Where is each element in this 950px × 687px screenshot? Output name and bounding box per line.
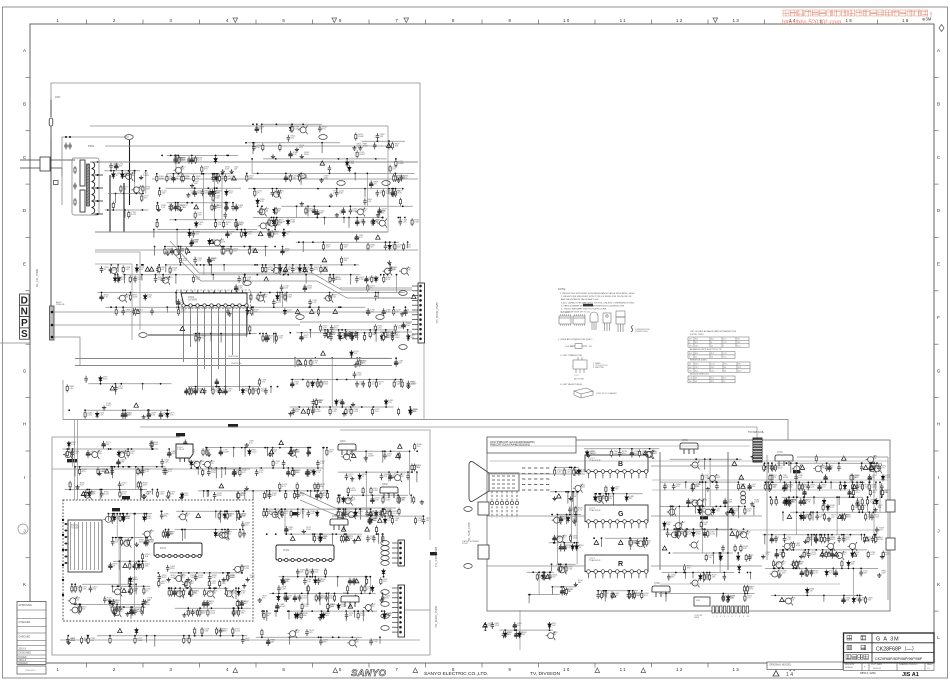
wire <box>107 514 109 521</box>
resistor <box>241 564 243 572</box>
capacitor <box>382 308 386 316</box>
ruler tick bottom <box>142 663 144 668</box>
svg-text:IC101: IC101 <box>160 548 167 550</box>
wire <box>252 491 254 500</box>
resistor <box>289 174 291 182</box>
junction <box>317 379 319 381</box>
capacitor <box>111 468 115 475</box>
svg-text:TO_MAIN_PWB: TO_MAIN_PWB <box>434 606 438 628</box>
resistor <box>394 174 396 182</box>
resistor <box>191 589 193 597</box>
svg-text:DRAWING PWB NO.: DRAWING PWB NO. <box>899 663 918 666</box>
capacitor <box>303 284 307 292</box>
resistor <box>307 408 309 416</box>
resistor <box>168 490 170 498</box>
junction <box>195 386 197 388</box>
junction <box>128 170 130 172</box>
junction <box>215 219 217 221</box>
capacitor <box>173 157 177 164</box>
ruler tick bottom <box>368 663 370 668</box>
node <box>315 357 317 359</box>
node <box>118 585 120 587</box>
junction <box>142 466 144 468</box>
svg-text:2. UNIT TRANSISTOR: 2. UNIT TRANSISTOR <box>560 354 583 357</box>
capacitor <box>100 294 104 302</box>
diode <box>117 276 120 283</box>
resistor <box>275 207 277 215</box>
svg-text:40: 40 <box>695 378 697 380</box>
junction <box>113 513 115 515</box>
row tick right <box>934 557 939 559</box>
rail wire <box>261 123 322 125</box>
revision triangle bottom <box>641 668 646 673</box>
wire <box>285 265 287 270</box>
wire <box>407 242 409 248</box>
capacitor <box>190 238 194 246</box>
diode <box>847 560 850 567</box>
link wire <box>213 174 215 220</box>
junction <box>778 568 780 570</box>
warning mark <box>264 277 269 281</box>
svg-text:T601: T601 <box>88 144 94 148</box>
resistor <box>290 510 292 518</box>
node <box>265 246 267 248</box>
ground <box>271 154 275 158</box>
junction <box>235 219 237 221</box>
wire <box>273 334 275 343</box>
ground <box>319 178 323 182</box>
node <box>220 510 222 512</box>
node <box>147 409 149 411</box>
resistor <box>128 578 130 586</box>
svg-text:815: 815 <box>695 353 698 355</box>
junction <box>161 510 163 512</box>
capacitor <box>161 276 165 283</box>
node <box>113 170 115 172</box>
svg-text:98513 4296: 98513 4296 <box>860 671 876 675</box>
capacitor <box>207 257 211 264</box>
rail wire <box>206 447 312 449</box>
junction <box>191 155 193 157</box>
junction <box>168 587 170 589</box>
node <box>175 292 177 294</box>
bottom horizontal wire <box>60 639 420 641</box>
diode <box>135 266 138 273</box>
ruler tick top <box>538 20 540 25</box>
diode <box>806 587 809 594</box>
junction <box>249 386 251 388</box>
wire <box>182 530 184 541</box>
junction <box>330 332 332 334</box>
resistor <box>383 275 385 283</box>
resistor <box>402 243 404 251</box>
net callout <box>139 333 147 338</box>
link wire <box>322 448 324 491</box>
transistor <box>256 294 266 303</box>
resistor <box>158 266 160 274</box>
junction <box>314 490 316 492</box>
capacitor <box>201 189 205 196</box>
diode <box>188 231 191 238</box>
transistor <box>783 597 793 606</box>
svg-text:TO_SUB_PWB: TO_SUB_PWB <box>467 522 471 541</box>
svg-text:3: 3 <box>169 667 173 672</box>
junction <box>232 202 234 204</box>
capacitor <box>266 335 270 343</box>
wire <box>215 511 217 518</box>
row tick right <box>934 76 939 78</box>
wire <box>112 586 114 592</box>
rail wire <box>164 246 269 248</box>
node <box>117 274 119 276</box>
resistor <box>239 530 241 538</box>
junction <box>162 274 164 276</box>
wire <box>140 490 142 500</box>
wire to CRT pwb <box>140 427 757 438</box>
svg-text:NO.: NO. <box>589 346 593 348</box>
capacitor <box>365 276 369 284</box>
rail wire <box>167 154 239 156</box>
capacitor <box>366 308 370 316</box>
diode <box>298 266 301 273</box>
wire <box>364 189 366 198</box>
resistor <box>189 387 191 395</box>
junction <box>405 306 407 308</box>
node <box>308 306 310 308</box>
wire <box>203 491 205 498</box>
junction <box>249 246 251 248</box>
capacitor <box>162 468 166 475</box>
ruler tick bottom <box>481 663 483 668</box>
svg-text:16: 16 <box>902 18 910 23</box>
junction <box>225 386 227 388</box>
junction <box>221 173 223 175</box>
wire <box>129 561 131 569</box>
resistor <box>121 538 123 546</box>
wire <box>110 467 112 475</box>
resistor <box>359 359 361 367</box>
node <box>200 264 202 266</box>
rail <box>152 178 418 180</box>
revision triangle bottom <box>413 668 418 673</box>
svg-text:PLOT DATE: PLOT DATE <box>871 663 883 666</box>
resistor <box>164 247 166 255</box>
rail wire <box>290 379 403 381</box>
wire <box>377 293 379 299</box>
capacitor <box>218 388 222 395</box>
junction <box>145 537 147 539</box>
node <box>382 508 384 510</box>
resistor <box>128 211 130 219</box>
resistor <box>375 380 377 388</box>
junction <box>383 332 385 334</box>
node <box>142 264 144 266</box>
junction <box>389 264 391 266</box>
capacitor <box>109 562 113 570</box>
connector pin 2 <box>51 324 54 327</box>
junction <box>291 123 293 125</box>
node <box>182 529 184 531</box>
capacitor <box>205 600 209 608</box>
junction <box>178 572 180 574</box>
svg-text:815: 815 <box>695 370 698 372</box>
junction <box>203 264 205 266</box>
ruler tick bottom <box>199 663 201 668</box>
ground <box>400 312 404 316</box>
node <box>305 274 307 276</box>
node <box>321 533 323 535</box>
capacitor <box>273 221 277 228</box>
capacitor <box>328 294 332 301</box>
capacitor <box>284 175 288 183</box>
resistor <box>129 275 131 283</box>
transistor <box>287 449 297 458</box>
svg-text:TV, DIVISION: TV, DIVISION <box>530 671 560 677</box>
capacitor <box>234 284 238 292</box>
wire <box>302 242 304 252</box>
resistor <box>805 569 807 577</box>
node <box>319 406 321 408</box>
wire <box>273 265 275 272</box>
node <box>364 188 366 190</box>
junction <box>164 246 166 248</box>
left drop <box>62 380 64 420</box>
transistor <box>131 185 141 194</box>
node <box>260 467 262 469</box>
resistor <box>320 266 322 274</box>
wire <box>244 448 246 457</box>
svg-text:S: S <box>21 329 28 340</box>
diode <box>88 491 91 498</box>
wire <box>174 155 176 162</box>
junction <box>122 306 124 308</box>
node <box>343 217 345 219</box>
node <box>215 386 217 388</box>
resistor <box>864 596 866 604</box>
capacitor <box>215 379 219 387</box>
rail wire <box>267 508 371 510</box>
junction <box>254 188 256 190</box>
node <box>327 332 329 334</box>
diode <box>388 243 391 250</box>
node <box>276 123 278 125</box>
node <box>252 306 254 308</box>
warning mark <box>780 597 785 601</box>
row tick left <box>26 557 31 559</box>
node <box>252 142 254 144</box>
resistor <box>162 530 164 538</box>
resistor <box>130 587 132 595</box>
link wire <box>296 206 298 217</box>
ground <box>186 578 190 582</box>
capacitor <box>233 469 237 477</box>
junction <box>212 173 214 175</box>
pin wire <box>340 287 412 289</box>
diagonal bus 4 <box>300 500 396 516</box>
rail wire <box>287 533 362 535</box>
resistor <box>237 512 239 520</box>
wire <box>226 203 228 210</box>
ruler tick top <box>368 20 370 25</box>
capacitor <box>800 570 804 578</box>
junction <box>194 187 196 189</box>
node <box>228 572 230 574</box>
resistor <box>215 220 217 228</box>
svg-text:IC301: IC301 <box>283 550 290 552</box>
junction <box>375 292 377 294</box>
rail wire <box>188 386 261 388</box>
node <box>191 202 193 204</box>
tap node <box>97 187 99 189</box>
diode <box>351 334 354 341</box>
wire <box>110 467 112 475</box>
diode <box>137 562 140 569</box>
capacitor <box>374 294 378 301</box>
resistor <box>320 380 322 388</box>
node <box>375 158 377 160</box>
svg-text:40: 40 <box>724 370 726 372</box>
svg-text:DESIGNED: DESIGNED <box>19 652 32 655</box>
ground <box>97 471 101 475</box>
junction <box>292 467 294 469</box>
capacitor <box>174 157 178 164</box>
resistor <box>291 125 293 133</box>
capacitor <box>102 441 106 449</box>
svg-text:VERTICAL: VERTICAL <box>231 362 242 365</box>
junction <box>356 357 358 359</box>
junction <box>296 205 298 207</box>
rail wire <box>253 217 382 219</box>
rail wire <box>110 606 146 608</box>
capacitor <box>194 574 198 581</box>
ruler tick top <box>877 20 879 25</box>
junction <box>161 466 163 468</box>
node <box>331 357 333 359</box>
row tick right <box>934 130 939 132</box>
resistor <box>135 562 137 570</box>
svg-text:R: R <box>618 561 623 568</box>
junction <box>177 202 179 204</box>
node <box>111 466 113 468</box>
junction <box>120 537 122 539</box>
connector pin 3 <box>51 336 54 339</box>
drop into tuner 2 <box>77 420 79 500</box>
junction <box>215 155 217 157</box>
node <box>191 447 193 449</box>
transformer T601 box <box>72 158 99 215</box>
resistor <box>129 293 131 301</box>
row tick right <box>934 450 939 452</box>
node <box>302 379 304 381</box>
node <box>235 587 237 589</box>
diode <box>380 334 383 341</box>
warning mark <box>321 351 326 355</box>
svg-text:5: 5 <box>728 616 729 618</box>
junction <box>68 448 70 450</box>
node <box>141 274 143 276</box>
fuse F601 <box>49 118 53 140</box>
wire <box>117 265 119 272</box>
svg-text:G A 3M: G A 3M <box>876 637 900 643</box>
node <box>215 467 217 469</box>
node <box>241 447 243 449</box>
junction <box>238 607 240 609</box>
loop wire <box>95 252 140 330</box>
wire <box>233 448 235 458</box>
junction <box>118 537 120 539</box>
svg-text:815: 815 <box>738 367 741 369</box>
upper loop rail <box>90 125 388 127</box>
capacitor <box>315 492 319 500</box>
junction <box>329 274 331 276</box>
resistor <box>192 174 194 182</box>
svg-text:I: I <box>938 475 939 480</box>
svg-text:8: 8 <box>739 616 740 618</box>
resistor <box>257 387 259 395</box>
wire <box>244 275 246 280</box>
node <box>124 209 126 211</box>
svg-text:N: N <box>21 307 28 318</box>
capacitor <box>226 574 230 581</box>
node <box>140 489 142 491</box>
capacitor <box>235 221 239 228</box>
warning mark <box>309 309 314 313</box>
node <box>141 466 143 468</box>
junction <box>249 333 251 335</box>
junction <box>393 306 395 308</box>
junction <box>273 306 275 308</box>
inverted label <box>122 496 130 499</box>
node <box>346 379 348 381</box>
node <box>68 409 70 411</box>
svg-text:MODULE (UNIT) NO.: MODULE (UNIT) NO. <box>690 374 710 376</box>
ground <box>178 207 182 211</box>
ruler tick top <box>651 20 653 25</box>
resistor <box>169 266 171 274</box>
node <box>108 448 110 450</box>
resistor <box>112 201 114 209</box>
node <box>289 332 291 334</box>
line filter L601 <box>40 157 50 171</box>
svg-text:5: 5 <box>282 667 286 672</box>
capacitor <box>121 411 125 419</box>
junction <box>369 379 371 381</box>
wire <box>252 143 254 154</box>
capacitor <box>313 207 317 215</box>
transistor <box>770 570 780 579</box>
rail wire <box>263 158 387 160</box>
resistor <box>206 448 208 456</box>
wire <box>307 206 309 216</box>
junction <box>339 332 341 334</box>
svg-text:APPROVED: APPROVED <box>19 604 33 607</box>
revision triangle top <box>404 18 409 23</box>
transistor <box>324 294 334 303</box>
junction <box>196 467 198 469</box>
svg-text:40: 40 <box>695 381 697 383</box>
svg-text:ALMINIUM (UNIT) ELECTROLYTIC: ALMINIUM (UNIT) ELECTROLYTIC <box>690 348 722 351</box>
diagonal bus 2 <box>169 249 412 298</box>
resistor <box>156 220 158 228</box>
transistor <box>774 560 784 569</box>
transistor <box>270 510 280 519</box>
rail wire <box>108 513 152 515</box>
link wire <box>118 538 120 587</box>
node <box>354 264 356 266</box>
node <box>265 333 267 335</box>
rail wire <box>63 448 159 450</box>
wire <box>151 490 153 495</box>
